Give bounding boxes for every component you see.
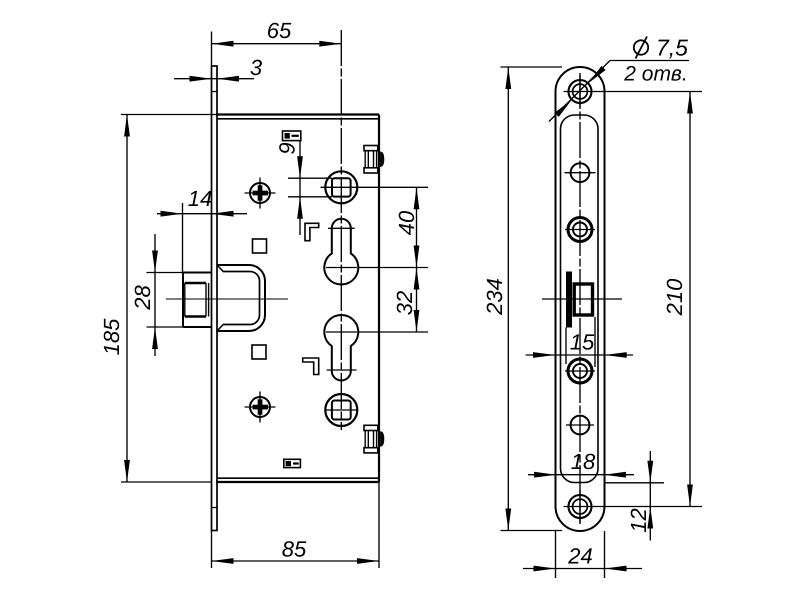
svg-text:9: 9: [275, 142, 300, 154]
svg-text:14: 14: [188, 186, 212, 211]
svg-text:32: 32: [392, 291, 417, 315]
svg-text:18: 18: [571, 449, 596, 474]
svg-text:40: 40: [394, 210, 419, 235]
svg-text:65: 65: [267, 18, 292, 43]
svg-text:7,5: 7,5: [656, 35, 688, 61]
svg-text:210: 210: [662, 278, 687, 316]
svg-text:185: 185: [99, 318, 124, 355]
svg-text:85: 85: [282, 537, 307, 562]
svg-text:234: 234: [482, 278, 507, 316]
svg-text:24: 24: [567, 544, 592, 569]
svg-text:12: 12: [626, 508, 651, 532]
svg-text:3: 3: [250, 55, 263, 80]
svg-text:15: 15: [570, 330, 595, 355]
svg-text:2 отв.: 2 отв.: [623, 63, 687, 86]
svg-text:28: 28: [130, 285, 155, 311]
